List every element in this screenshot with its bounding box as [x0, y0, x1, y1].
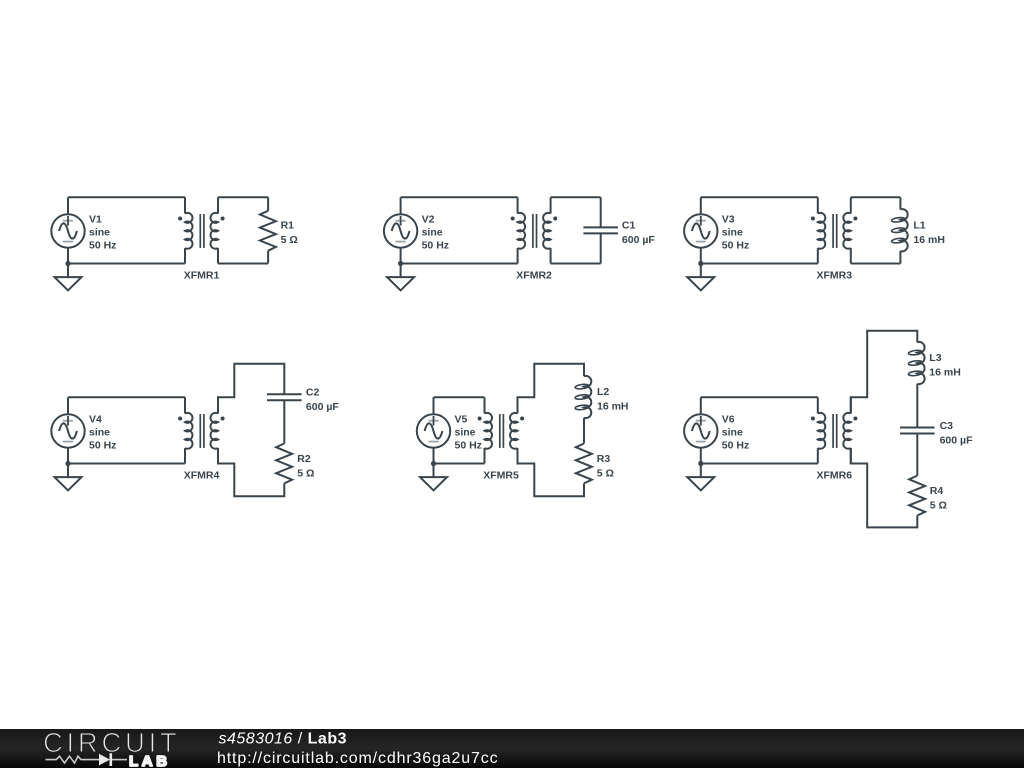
wire primary top [701, 396, 818, 398]
svg-text:50 Hz: 50 Hz [89, 240, 116, 252]
ground [420, 464, 447, 491]
inductor L2 16 mH [575, 376, 591, 418]
svg-text:V5: V5 [455, 414, 468, 426]
wire primary bottom [68, 463, 185, 465]
node circuit6 [684, 331, 973, 528]
svg-text:50 Hz: 50 Hz [455, 440, 482, 452]
wire V5 top stub [433, 397, 435, 414]
logo resistor squiggle [46, 756, 100, 763]
wire secondary bottom [851, 263, 901, 265]
logo diode [99, 754, 110, 766]
svg-text:R4: R4 [930, 485, 944, 497]
voltage source V4 sine 50 Hz [51, 414, 84, 447]
svg-text:V4: V4 [89, 414, 102, 426]
junction dot [65, 261, 70, 266]
wire L3 to C3 [916, 384, 918, 428]
svg-text:5 Ω: 5 Ω [281, 234, 298, 246]
ground [55, 464, 82, 491]
capacitor C2 600 &#181;F [267, 394, 302, 400]
svg-text:s4583016 / Lab3: s4583016 / Lab3 [219, 731, 347, 748]
wire V4 top stub [67, 397, 69, 414]
svg-text:600 µF: 600 µF [622, 234, 655, 246]
wire secondary top [851, 196, 901, 198]
wire primary bottom [401, 263, 518, 265]
resistor R3 5 &#937; [576, 444, 592, 484]
node circuit3 [684, 197, 945, 290]
wire secondary top step [518, 364, 585, 414]
svg-text:XFMR3: XFMR3 [817, 270, 853, 282]
node circuit2 [384, 197, 655, 290]
wire V1 top stub [67, 197, 69, 214]
wire L1 stubs [899, 197, 901, 209]
wire primary top [434, 396, 485, 398]
junction dot [431, 461, 436, 466]
resistor R2 5 &#937; [276, 444, 292, 484]
svg-text:50 Hz: 50 Hz [89, 440, 116, 452]
svg-text:V2: V2 [422, 214, 435, 226]
svg-text:16 mH: 16 mH [929, 366, 961, 378]
wire secondary top [551, 196, 601, 198]
svg-text:L1: L1 [913, 220, 925, 232]
wire secondary bottom step [218, 448, 284, 496]
resistor R4 5 &#937; [909, 476, 925, 516]
wire R1 stubs [267, 197, 269, 211]
svg-text:XFMR4: XFMR4 [184, 470, 220, 482]
svg-text:L3: L3 [929, 352, 941, 364]
wire primary bottom [434, 463, 485, 465]
transformer XFMR6 [811, 397, 858, 463]
svg-text:sine: sine [722, 427, 743, 439]
wire secondary bottom [551, 263, 601, 265]
svg-text:XFMR1: XFMR1 [184, 270, 220, 282]
wire primary top [401, 196, 518, 198]
capacitor C3 600 &#181;F [900, 428, 935, 434]
wire L1 bottom stub [899, 251, 901, 264]
transformer XFMR1 [178, 197, 225, 263]
wire L2 to R3 [583, 418, 585, 444]
node circuit4 [51, 364, 339, 497]
svg-text:50 Hz: 50 Hz [722, 440, 749, 452]
junction dot [65, 461, 70, 466]
node circuit1 [51, 197, 297, 290]
svg-text:5 Ω: 5 Ω [597, 467, 614, 479]
svg-text:XFMR6: XFMR6 [817, 470, 853, 482]
wire primary bottom [68, 263, 185, 265]
ground [55, 264, 82, 291]
svg-text:L2: L2 [597, 386, 609, 398]
junction dot [698, 261, 703, 266]
wire V3 bottom stub [700, 248, 702, 264]
voltage source V3 sine 50 Hz [684, 214, 717, 247]
svg-text:5 Ω: 5 Ω [930, 499, 947, 511]
wire primary top [68, 396, 185, 398]
transformer XFMR3 [811, 197, 858, 263]
wire primary bottom [701, 263, 818, 265]
wire C2 to R2 [283, 400, 285, 443]
wire V2 bottom stub [400, 248, 402, 264]
svg-text:LAB: LAB [129, 753, 171, 768]
wire V6 top stub [700, 397, 702, 414]
svg-text:600 µF: 600 µF [306, 401, 339, 413]
svg-text:sine: sine [89, 227, 110, 239]
svg-text:50 Hz: 50 Hz [722, 240, 749, 252]
wire V1 bottom stub [67, 248, 69, 264]
ground [387, 264, 414, 291]
svg-text:V1: V1 [89, 214, 102, 226]
svg-text:C2: C2 [306, 387, 320, 399]
svg-text:sine: sine [422, 227, 443, 239]
resistor R1 5 &#937; [260, 211, 276, 251]
wire secondary top [218, 196, 268, 198]
transformer XFMR5 [478, 397, 524, 463]
wire secondary bottom [218, 263, 268, 265]
wire primary top [701, 196, 818, 198]
wire V6 bottom stub [700, 448, 702, 464]
wire primary top [68, 196, 185, 198]
svg-text:C1: C1 [622, 220, 636, 232]
svg-text:sine: sine [89, 427, 110, 439]
svg-text:R3: R3 [597, 453, 611, 465]
svg-text:16 mH: 16 mH [913, 234, 945, 246]
wire V5 bottom stub [433, 448, 435, 464]
ground [687, 464, 714, 491]
svg-text:sine: sine [722, 227, 743, 239]
wire C3 to R4 [916, 434, 918, 476]
wire V3 top stub [700, 197, 702, 214]
svg-text:V3: V3 [722, 214, 735, 226]
svg-text:sine: sine [455, 427, 476, 439]
svg-text:XFMR2: XFMR2 [516, 270, 552, 282]
svg-text:16 mH: 16 mH [597, 400, 629, 412]
voltage source V5 sine 50 Hz [417, 414, 450, 447]
svg-text:C3: C3 [940, 420, 954, 432]
wire secondary top step [851, 331, 918, 414]
svg-text:XFMR5: XFMR5 [483, 470, 519, 482]
junction dot [698, 461, 703, 466]
voltage source V2 sine 50 Hz [384, 214, 417, 247]
voltage source V6 sine 50 Hz [684, 414, 717, 447]
svg-text:R2: R2 [297, 453, 311, 465]
junction dot [398, 261, 403, 266]
svg-text:R1: R1 [281, 220, 295, 232]
wire secondary bottom step [851, 448, 918, 527]
transformer XFMR2 [511, 197, 558, 263]
wire V4 bottom stub [67, 448, 69, 464]
wire C1 stubs [600, 197, 602, 227]
ground [687, 264, 714, 291]
wire secondary top step [218, 364, 284, 414]
svg-text:600 µF: 600 µF [940, 434, 973, 446]
wire secondary bottom step [518, 448, 585, 496]
inductor L3 16 mH [908, 342, 924, 384]
svg-text:http://circuitlab.com/cdhr36ga: http://circuitlab.com/cdhr36ga2u7cc [217, 750, 498, 767]
svg-text:V6: V6 [722, 414, 735, 426]
voltage source V1 sine 50 Hz [51, 214, 84, 247]
transformer XFMR4 [178, 397, 225, 463]
svg-text:5 Ω: 5 Ω [297, 467, 314, 479]
wire primary bottom [701, 463, 818, 465]
inductor L1 16 mH [891, 209, 907, 251]
node circuit5 [417, 364, 629, 497]
capacitor C1 600 &#181;F [583, 227, 618, 233]
wire V2 top stub [400, 197, 402, 214]
svg-text:50 Hz: 50 Hz [422, 240, 449, 252]
